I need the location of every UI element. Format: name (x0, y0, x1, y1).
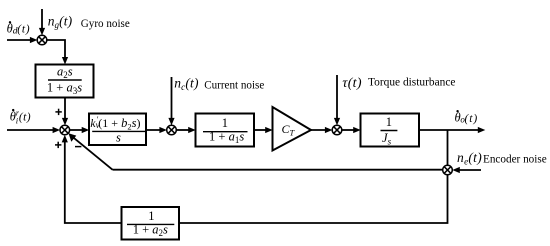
wire: encoder feedback diagonal to main sum (71, 135, 113, 170)
sign: plus top of main sum (55, 109, 61, 115)
wire: current sum to a1 block (176, 129, 192, 131)
sum junction: gyro (37, 35, 47, 45)
svg-text:Gyro noise: Gyro noise (81, 18, 130, 30)
svg-text:1 + a3s: 1 + a3s (47, 81, 82, 97)
arrowhead: torque disturbance down (334, 118, 340, 126)
arrowhead: theta_i into main sum (53, 127, 61, 133)
svg-text:1: 1 (148, 209, 154, 223)
svg-text:nc(t): nc(t) (174, 75, 199, 92)
wire: CT triangle to torque sum (311, 129, 328, 131)
block: 1/(1+a1s) (196, 114, 255, 147)
wire: gyro sum to a2s block (47, 40, 65, 61)
wire: torque disturbance vertical (336, 75, 338, 122)
arrowhead: into CT triangle (265, 127, 273, 133)
sum junction: main (60, 125, 70, 135)
sign: minus right of main sum (75, 146, 81, 148)
arrowhead: theta_d into gyro sum (30, 37, 38, 43)
svg-text:s: s (116, 131, 121, 145)
arrowhead: into current sum (159, 127, 167, 133)
block: 1/(1+a2s) feedback (122, 207, 180, 240)
sign: plus bottom of main sum (55, 142, 61, 148)
svg-text:1: 1 (222, 116, 228, 130)
wire: theta_i input (7, 129, 56, 131)
svg-text:(1 + b2s): (1 + b2s) (98, 116, 140, 131)
svg-text:Torque disturbance: Torque disturbance (368, 76, 455, 88)
svg-text:ne(t): ne(t) (457, 150, 482, 167)
label: theta_o(t) (455, 110, 479, 125)
wire: encoder feedback horizontal (113, 169, 443, 171)
sum junction: torque (332, 125, 342, 135)
wire: output line (419, 129, 481, 131)
wire: a1 block to CT triangle (254, 129, 269, 131)
wire: theta_d input (7, 39, 34, 41)
arrowhead: into Js block (353, 127, 361, 133)
wire: kv block to current sum (146, 129, 163, 131)
svg-text:1: 1 (386, 115, 392, 129)
wire: main sum to kv block (69, 129, 85, 131)
wire: a2 feedback block to main sum (65, 139, 122, 223)
svg-text:(t): (t) (19, 112, 31, 124)
arrowhead: encoder noise into encoder sum (left-pointing) (452, 167, 460, 173)
arrowhead: current noise down (168, 118, 174, 126)
block: 1/Js (361, 114, 420, 147)
svg-text:1 + a2s: 1 + a2s (133, 223, 168, 239)
arrowhead: diagonal into main sum (69, 133, 77, 142)
sum junction: encoder noise (443, 165, 453, 175)
wire: encoder sum down to bottom path (179, 175, 448, 223)
wire: current noise vertical (171, 77, 173, 122)
arrowhead: bottom feedback up into main sum (62, 135, 68, 143)
wire: torque sum to Js block (342, 129, 357, 131)
wire: output branch down to encoder sum (447, 130, 449, 165)
gain triangle CT (273, 107, 312, 151)
arrowhead: into a2s block top (62, 57, 68, 65)
block: kv'(1+b2s)/s (89, 114, 146, 146)
label: theta_d(t) (7, 21, 31, 37)
svg-text:(t): (t) (17, 24, 30, 36)
svg-text:τ(t): τ(t) (342, 76, 361, 91)
wire: encoder noise input (457, 169, 482, 171)
arrowhead: gyro noise down (39, 28, 45, 36)
arrowhead: into a1 block (188, 127, 196, 133)
wire: gyro noise vertical (41, 9, 43, 32)
arrowhead: a2s output into main sum (62, 118, 68, 126)
svg-text:Encoder noise: Encoder noise (483, 154, 547, 166)
svg-text:1 + a1s: 1 + a1s (209, 129, 244, 145)
svg-text:Current noise: Current noise (204, 79, 264, 91)
label: theta_i^r(t) (10, 108, 31, 125)
sum junction: current noise (167, 125, 177, 135)
arrowhead: into kv block (82, 127, 90, 133)
svg-text:ng(t): ng(t) (48, 14, 73, 31)
block: a2s/(1+a3s) (36, 65, 94, 98)
arrowhead: output (478, 127, 486, 133)
arrowhead: into torque sum (325, 127, 333, 133)
svg-text:(t): (t) (465, 113, 479, 125)
wire: a2s block to main sum (64, 98, 66, 122)
